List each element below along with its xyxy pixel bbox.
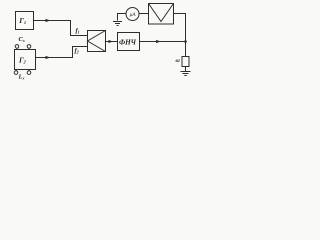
svg-text:Г1: Г1 [18, 16, 26, 25]
svg-text:вг: вг [176, 58, 181, 64]
svg-text:ФНЧ: ФНЧ [119, 39, 137, 47]
svg-text:f2: f2 [75, 48, 79, 55]
svg-text:Сх: Сх [19, 36, 25, 43]
svg-text:μА: μА [130, 12, 137, 18]
svg-text:f1: f1 [76, 28, 80, 35]
svg-text:Lх: Lх [18, 73, 25, 80]
svg-text:Г2: Г2 [18, 56, 27, 65]
